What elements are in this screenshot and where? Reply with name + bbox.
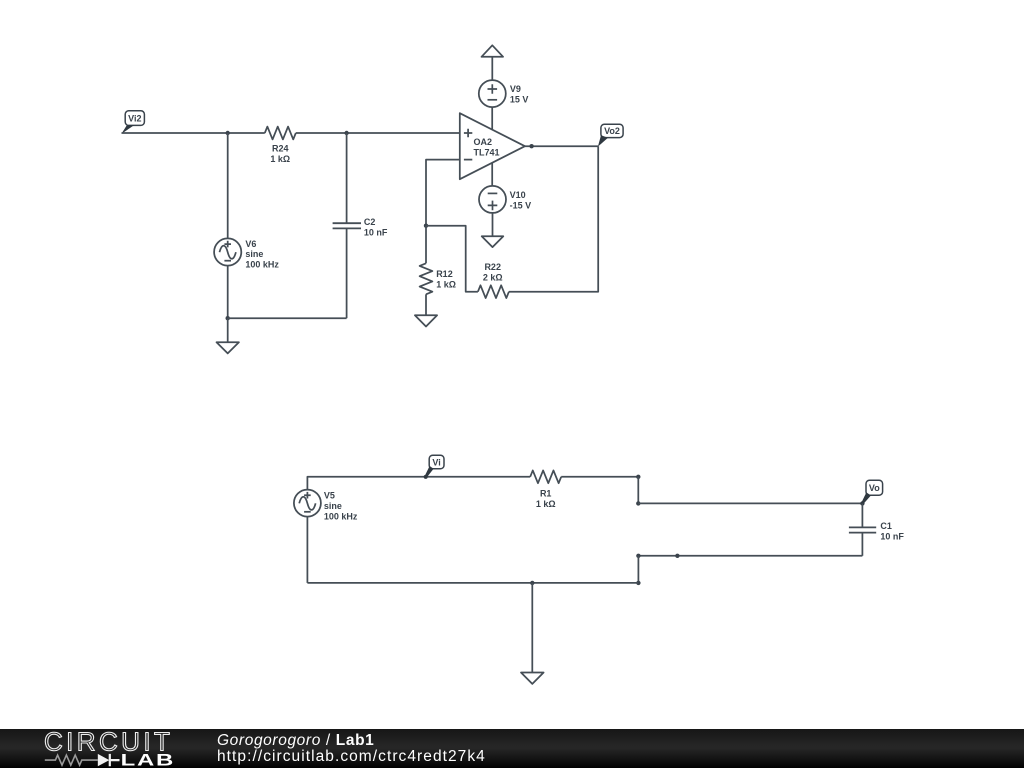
wire: V10 to ground (492, 213, 494, 236)
svg-text:Vo: Vo (869, 483, 880, 493)
svg-text:V5: V5 (324, 491, 335, 501)
junction node mid lower wire (675, 554, 679, 558)
ground (below R12) (415, 315, 437, 326)
wire: R1 to step corner (561, 476, 638, 478)
svg-text:-15 V: -15 V (510, 200, 532, 210)
svg-text:OA2: OA2 (474, 137, 493, 147)
svg-text:1 kΩ: 1 kΩ (536, 499, 556, 509)
svg-text:R24: R24 (272, 144, 289, 154)
svg-text:100 kHz: 100 kHz (324, 511, 358, 521)
svg-text:R1: R1 (540, 489, 552, 499)
power flag arrow (482, 45, 504, 57)
svg-text:TL741: TL741 (474, 147, 500, 157)
wire: V9 to power arrow (491, 57, 493, 80)
svg-text:sine: sine (324, 501, 342, 511)
wire: step down (637, 477, 639, 504)
wire: Vi2 to R24 (122, 132, 265, 134)
CircuitLab logo (0, 723, 200, 768)
svg-text:Vi: Vi (432, 457, 440, 467)
net flag Vo2 (598, 124, 623, 146)
svg-text:V10: V10 (510, 190, 526, 200)
junction node step bottom (636, 501, 640, 505)
capacitor C2 (333, 133, 388, 318)
svg-text:1 kΩ: 1 kΩ (270, 154, 290, 164)
svg-text:10 nF: 10 nF (364, 228, 388, 238)
junction node at Vo (860, 501, 864, 505)
junction node lower step top (636, 554, 640, 558)
voltage source V9 (479, 80, 529, 107)
footer title (217, 732, 374, 750)
wire: bottom rail up to V5 (306, 517, 308, 583)
footer bar (0, 729, 1024, 768)
wire: C1 bottom to step (638, 555, 862, 557)
junction node at C2 top (344, 131, 348, 135)
wire: R22 to output column (509, 146, 598, 292)
svg-text:R12: R12 (436, 269, 453, 279)
junction node at op-amp output (529, 144, 533, 148)
svg-text:sine: sine (245, 249, 263, 259)
net flag Vi2 (121, 111, 144, 134)
wire: R24 to op-amp + input (296, 132, 460, 134)
voltage source V5 (294, 490, 358, 522)
svg-text:C2: C2 (364, 217, 376, 227)
svg-text:LAB: LAB (121, 751, 175, 768)
svg-text:V9: V9 (510, 84, 521, 94)
wire: feedback node to R22 (426, 226, 478, 292)
wire: bottom rail to C2 bottom (228, 317, 347, 319)
voltage source V10 (479, 186, 531, 213)
svg-text:Vo2: Vo2 (604, 126, 620, 136)
wire: op-amp inverting input to feedback node (426, 160, 460, 226)
junction node lower step bottom (636, 581, 640, 585)
wire: step to Vo column (638, 502, 862, 504)
wire: op-amp output (525, 145, 598, 147)
net flag Vo (862, 480, 883, 503)
wire: lower step down (637, 556, 639, 583)
junction node feedback (424, 224, 428, 228)
svg-text:Vi2: Vi2 (128, 114, 141, 124)
wire: op-amp V- pin (491, 163, 493, 186)
svg-text:100 kHz: 100 kHz (245, 260, 279, 270)
resistor R1 (530, 470, 561, 509)
ground (below V10) (482, 236, 504, 247)
wire: V6 to bottom rail (227, 266, 229, 319)
junction node at V6 ground (226, 316, 230, 320)
wire: op-amp V+ pin (491, 107, 493, 130)
resistor R22 (478, 262, 509, 298)
wire: bottom rail (307, 582, 638, 584)
junction node at Vi2/V6 column (226, 131, 230, 135)
svg-text:1 kΩ: 1 kΩ (436, 280, 456, 290)
junction node step top (636, 475, 640, 479)
svg-text:C1: C1 (880, 521, 892, 531)
svg-text:2 kΩ: 2 kΩ (483, 272, 503, 282)
capacitor C1 (849, 503, 905, 555)
ground (bottom circuit) (521, 583, 544, 684)
svg-text:10 nF: 10 nF (880, 531, 904, 541)
net flag Vi (424, 455, 444, 479)
resistor R12 (420, 226, 456, 316)
svg-text:V6: V6 (245, 239, 256, 249)
svg-text:15 V: 15 V (510, 95, 529, 105)
resistor R24 (265, 127, 296, 165)
svg-text:R22: R22 (484, 262, 501, 272)
wire: V5 top to R1 (307, 477, 530, 490)
wire: down to V6 (227, 133, 229, 239)
ground (below V6) (217, 318, 239, 353)
voltage source V6 (214, 238, 279, 269)
footer url (217, 748, 486, 766)
junction node at ground stem (530, 581, 534, 585)
op-amp OA2 TL741 (460, 113, 525, 179)
